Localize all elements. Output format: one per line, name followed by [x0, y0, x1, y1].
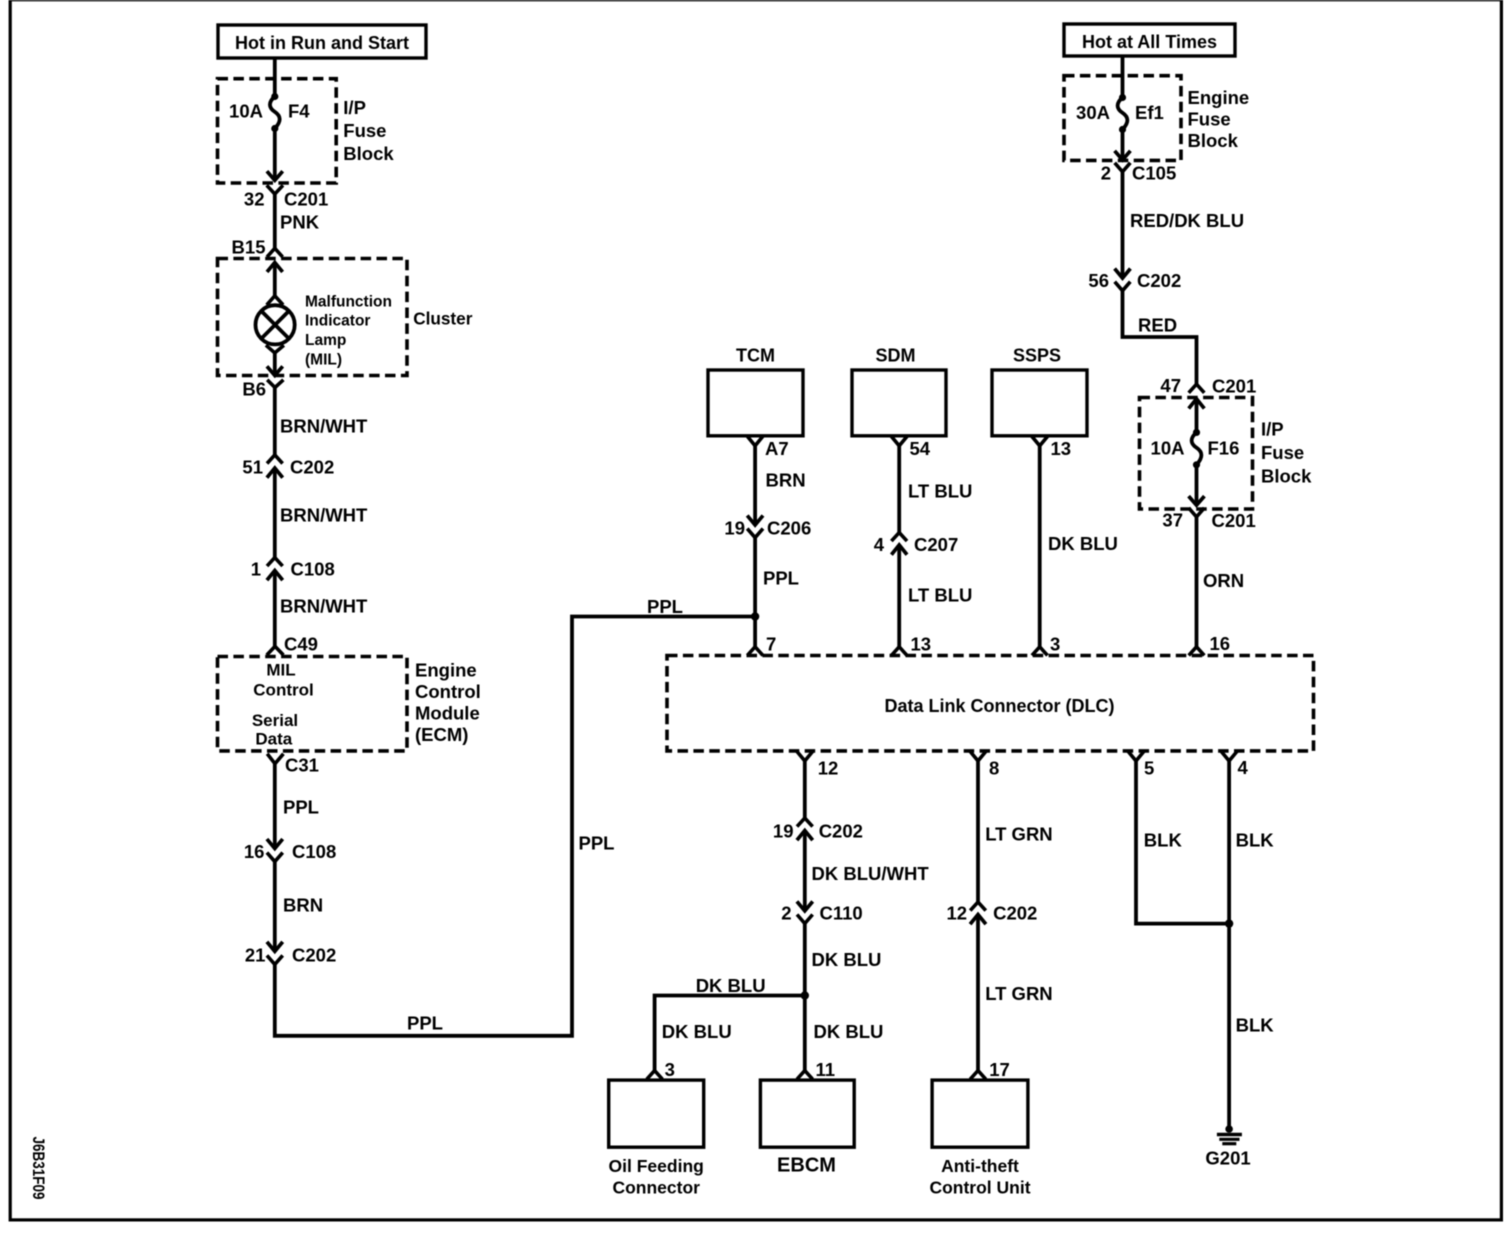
svg-text:C207: C207: [914, 534, 958, 555]
svg-text:C202: C202: [1137, 270, 1181, 291]
svg-text:MIL: MIL: [266, 661, 295, 680]
svg-text:Hot at All Times: Hot at All Times: [1082, 32, 1217, 52]
wire from Hot in Run and Start to fuse F4: [273, 58, 277, 97]
Engine Fuse Block label: [1188, 87, 1250, 151]
svg-text:EBCM: EBCM: [777, 1155, 836, 1177]
Engine Fuse Block dashed box: [1064, 76, 1181, 161]
svg-text:C31: C31: [285, 755, 319, 776]
wire BLK DLC pin 5: [1136, 761, 1229, 924]
svg-text:Data: Data: [255, 730, 292, 749]
wire BRN TCM to C206: [755, 446, 805, 525]
svg-text:DK BLU: DK BLU: [662, 1021, 732, 1042]
svg-text:13: 13: [911, 634, 932, 655]
svg-text:LT BLU: LT BLU: [908, 585, 972, 606]
svg-text:8: 8: [989, 758, 999, 779]
svg-text:(MIL): (MIL): [305, 352, 342, 369]
wire fuse F4 output with arrow: [267, 129, 283, 181]
Anti-theft Control Unit box: [929, 1080, 1030, 1197]
svg-text:12: 12: [947, 903, 968, 924]
svg-text:C49: C49: [284, 634, 318, 655]
svg-text:Indicator: Indicator: [305, 313, 370, 330]
connector DLC pin 16: [1189, 633, 1230, 655]
SSPS box: [992, 346, 1087, 436]
connector C110 pin 2: [781, 901, 863, 923]
svg-text:Module: Module: [415, 703, 480, 724]
connector DLC pin 13: [891, 634, 931, 656]
svg-text:1: 1: [251, 559, 261, 580]
svg-text:BRN/WHT: BRN/WHT: [280, 505, 368, 526]
svg-text:PPL: PPL: [283, 797, 319, 818]
svg-text:5: 5: [1144, 758, 1154, 779]
svg-text:G201: G201: [1205, 1148, 1250, 1169]
svg-text:F16: F16: [1208, 438, 1240, 459]
svg-text:12: 12: [818, 758, 839, 779]
connector DLC pin 8: [970, 752, 999, 779]
svg-text:Ef1: Ef1: [1135, 102, 1164, 123]
svg-text:BLK: BLK: [1236, 830, 1275, 851]
svg-text:BRN/WHT: BRN/WHT: [280, 416, 368, 437]
svg-text:DK BLU: DK BLU: [1048, 533, 1118, 554]
junction dot BLK: [1225, 919, 1233, 927]
svg-text:C202: C202: [819, 821, 863, 842]
connector DLC pin 3: [1032, 634, 1060, 656]
SDM box: [852, 346, 946, 436]
wire PPL C31 to C108: [275, 764, 319, 849]
svg-text:2: 2: [1101, 163, 1111, 184]
svg-text:C201: C201: [1212, 510, 1256, 531]
svg-text:3: 3: [1050, 634, 1060, 655]
svg-text:16: 16: [244, 841, 265, 862]
fuse Ef1 symbol: [1118, 94, 1128, 133]
svg-text:RED: RED: [1138, 315, 1177, 336]
connector C202 pin 21: [245, 942, 336, 966]
ECM label: [415, 660, 481, 746]
svg-text:C108: C108: [291, 559, 335, 580]
connector C49 at ECM: [267, 634, 318, 656]
svg-text:C105: C105: [1132, 163, 1176, 184]
connector SSPS pin 13: [1032, 436, 1071, 459]
connector C105 pin 2: [1101, 163, 1177, 184]
svg-text:LT BLU: LT BLU: [908, 481, 972, 502]
svg-text:PNK: PNK: [280, 212, 320, 233]
wire DK BLU branch to Oil Feeding Connector: [655, 975, 805, 1071]
svg-text:10A: 10A: [229, 101, 263, 122]
connector C31: [267, 754, 319, 776]
connector C202 pin 56: [1088, 269, 1181, 291]
connector C108 pin 1: [251, 558, 335, 581]
connector Oil Feeding pin 3: [647, 1059, 675, 1080]
svg-text:LT GRN: LT GRN: [985, 824, 1052, 845]
Cluster dashed box: [218, 259, 408, 376]
connector DLC pin 4: [1221, 752, 1248, 779]
connector DLC pin 12: [797, 752, 838, 779]
wire BRN/WHT C202 to C108: [275, 468, 368, 558]
arrow into fuse F16: [1189, 399, 1205, 433]
TCM box: [708, 346, 803, 436]
svg-text:Fuse: Fuse: [1188, 109, 1231, 130]
ground G201: [1205, 1125, 1250, 1168]
svg-text:A7: A7: [765, 438, 789, 459]
svg-text:C202: C202: [292, 945, 336, 966]
connector TCM pin A7: [747, 436, 788, 459]
connector Anti-theft pin 17: [970, 1059, 1010, 1080]
svg-text:J6B31F09: J6B31F09: [29, 1137, 48, 1200]
svg-text:Serial: Serial: [252, 711, 298, 730]
svg-text:Fuse: Fuse: [1261, 442, 1304, 463]
svg-text:C206: C206: [767, 518, 811, 539]
svg-text:Block: Block: [1188, 130, 1239, 151]
svg-text:19: 19: [724, 518, 745, 539]
connector C202 pin 51: [242, 455, 334, 478]
svg-text:51: 51: [242, 457, 263, 478]
wire from Hot at All Times to fuse Ef1: [1121, 56, 1125, 98]
svg-text:PPL: PPL: [579, 833, 615, 854]
svg-text:10A: 10A: [1151, 438, 1185, 459]
svg-text:B15: B15: [232, 237, 266, 258]
Engine Control Module dashed box: [218, 657, 408, 751]
wire BRN/WHT C108 to ECM: [275, 571, 368, 647]
connector C202 pin 19: [773, 818, 863, 842]
wire LT BLU SDM to C207: [899, 446, 972, 533]
wire BLK DLC pin 4 to ground: [1229, 761, 1274, 1129]
I/P Fuse Block (F4) dashed box: [218, 79, 337, 183]
EBCM box: [760, 1080, 854, 1176]
wire DK BLU/WHT: [805, 831, 930, 911]
svg-text:PPL: PPL: [647, 596, 683, 617]
svg-text:BRN/WHT: BRN/WHT: [280, 596, 368, 617]
connector B6: [242, 379, 283, 400]
svg-text:I/P: I/P: [343, 97, 366, 118]
svg-text:DK BLU: DK BLU: [814, 1021, 884, 1042]
wire BRN/WHT B6 to C202: [275, 388, 368, 455]
svg-text:56: 56: [1088, 270, 1109, 291]
connector C206 pin 19: [724, 516, 811, 539]
wire DK BLU C110 to EBCM: [805, 924, 882, 1071]
svg-text:ORN: ORN: [1203, 570, 1244, 591]
svg-text:C202: C202: [290, 457, 334, 478]
svg-text:C108: C108: [292, 841, 336, 862]
ECM internal labels: [252, 661, 314, 749]
svg-text:DK BLU: DK BLU: [812, 949, 882, 970]
svg-text:B6: B6: [242, 379, 266, 400]
svg-text:BLK: BLK: [1144, 830, 1183, 851]
svg-text:4: 4: [874, 534, 885, 555]
svg-text:Malfunction: Malfunction: [305, 293, 392, 310]
svg-text:Connector: Connector: [612, 1178, 700, 1198]
I/P Fuse Block (F16) dashed box: [1140, 398, 1253, 510]
connector EBCM pin 11: [797, 1059, 835, 1080]
svg-text:BRN: BRN: [766, 470, 806, 491]
svg-text:30A: 30A: [1076, 102, 1110, 123]
svg-text:37: 37: [1162, 510, 1183, 531]
wire LT BLU C207 to DLC pin 13: [899, 545, 972, 647]
svg-text:3: 3: [665, 1059, 675, 1080]
wire DK BLU SSPS to DLC pin 3: [1040, 446, 1118, 647]
svg-text:16: 16: [1210, 633, 1231, 654]
connector C201 pin 37: [1162, 508, 1255, 531]
MIL label: [305, 293, 392, 368]
wire fuse F16 output with arrow: [1189, 465, 1205, 505]
svg-text:Control Unit: Control Unit: [929, 1178, 1030, 1198]
wire ORN to DLC pin 16: [1197, 517, 1245, 647]
connector SDM pin 54: [891, 436, 931, 459]
svg-text:Lamp: Lamp: [305, 332, 346, 349]
svg-text:Fuse: Fuse: [343, 120, 386, 141]
svg-text:47: 47: [1160, 375, 1181, 396]
svg-text:2: 2: [781, 903, 791, 924]
svg-text:LT GRN: LT GRN: [985, 983, 1052, 1004]
svg-text:32: 32: [244, 189, 265, 210]
svg-text:DK BLU: DK BLU: [696, 975, 766, 996]
wire PPL C206 to DLC pin 7: [755, 538, 799, 647]
svg-text:4: 4: [1238, 757, 1249, 778]
power feed box: Hot in Run and Start: [218, 25, 426, 58]
svg-text:21: 21: [245, 945, 266, 966]
svg-text:11: 11: [816, 1059, 836, 1080]
wire PNK: [275, 194, 320, 248]
fuse F16 symbol: [1192, 429, 1202, 469]
svg-text:C110: C110: [820, 903, 863, 924]
connector DLC pin 5: [1128, 752, 1154, 779]
svg-text:Control: Control: [253, 681, 313, 700]
fuse F4 symbol: [270, 93, 280, 132]
junction dot DK BLU: [801, 991, 809, 999]
svg-text:RED/DK BLU: RED/DK BLU: [1130, 210, 1244, 231]
svg-text:Hot in Run and Start: Hot in Run and Start: [235, 33, 409, 53]
svg-text:BLK: BLK: [1236, 1015, 1275, 1036]
svg-text:I/P: I/P: [1261, 419, 1284, 440]
power feed box: Hot at All Times: [1064, 24, 1235, 56]
wire RED routing to C201: [1123, 291, 1197, 385]
wire LT GRN C202 to Anti-theft: [978, 915, 1053, 1071]
wire fuse Ef1 output with arrow: [1115, 130, 1131, 160]
connector C201 pin 47: [1160, 375, 1256, 397]
connector C201 pin 32: [244, 185, 328, 209]
svg-text:SDM: SDM: [876, 346, 916, 366]
connector C202 pin 12: [947, 902, 1038, 924]
svg-text:BRN: BRN: [283, 895, 323, 916]
svg-text:54: 54: [910, 438, 931, 459]
svg-text:Control: Control: [415, 681, 481, 702]
svg-text:Block: Block: [1261, 466, 1312, 487]
svg-text:19: 19: [773, 821, 794, 842]
svg-text:PPL: PPL: [407, 1013, 443, 1034]
svg-text:Oil Feeding: Oil Feeding: [609, 1156, 704, 1176]
svg-text:TCM: TCM: [736, 346, 775, 366]
svg-text:Cluster: Cluster: [413, 309, 473, 329]
svg-text:Data Link Connector (DLC): Data Link Connector (DLC): [884, 696, 1114, 716]
wire MIL to B6 with arrow: [267, 353, 283, 376]
wire BRN C108 to C202: [275, 862, 323, 952]
svg-text:(ECM): (ECM): [415, 724, 468, 745]
connector C108 pin 16: [244, 839, 336, 862]
Oil Feeding Connector box: [609, 1080, 704, 1197]
svg-text:Engine: Engine: [415, 660, 477, 681]
svg-text:SSPS: SSPS: [1013, 346, 1061, 366]
wire LT GRN DLC pin 8 to C202: [978, 761, 1053, 902]
wire PPL routing to DLC: [275, 617, 755, 1036]
junction dot PPL: [751, 612, 759, 620]
connector C207 pin 4: [874, 533, 959, 556]
wire RED/DK BLU: [1123, 172, 1245, 278]
I/P Fuse Block label right: [1261, 419, 1312, 487]
svg-text:C201: C201: [284, 189, 328, 210]
arrow into cluster: [267, 263, 283, 296]
Data Link Connector DLC dashed box: [667, 656, 1314, 751]
malfunction indicator lamp MIL: [256, 296, 295, 353]
svg-text:Block: Block: [343, 143, 394, 164]
wire DLC pin 12 to C202: [803, 761, 807, 818]
I/P Fuse Block label: [343, 97, 394, 164]
svg-text:C201: C201: [1212, 376, 1256, 397]
svg-text:7: 7: [766, 634, 776, 655]
svg-text:PPL: PPL: [763, 568, 799, 589]
svg-text:17: 17: [989, 1059, 1010, 1080]
connector DLC pin 7: [747, 634, 776, 656]
svg-text:Engine: Engine: [1188, 87, 1250, 108]
connector B15 at cluster: [232, 237, 283, 258]
svg-text:Anti-theft: Anti-theft: [941, 1156, 1019, 1176]
svg-text:C202: C202: [993, 903, 1037, 924]
svg-text:13: 13: [1051, 438, 1072, 459]
svg-text:F4: F4: [288, 101, 310, 122]
svg-text:DK BLU/WHT: DK BLU/WHT: [812, 863, 930, 884]
